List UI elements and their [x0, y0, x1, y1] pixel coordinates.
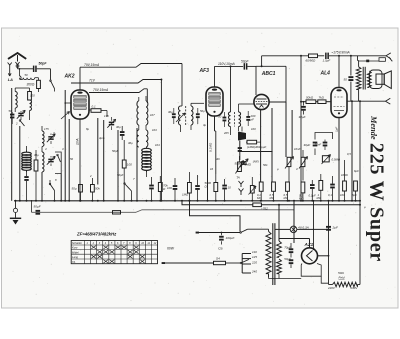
svg-text:Schalter: Schalter [72, 241, 82, 245]
second bus to transformer [261, 204, 360, 206]
wire ABC1 grid left [252, 103, 254, 105]
AVC drop x294 [293, 201, 295, 243]
wire tuner top left [11, 68, 13, 89]
switch S3 [49, 183, 51, 185]
ABC1 top wire [256, 65, 286, 67]
wire AZ1 top [278, 239, 280, 242]
screen dark trapezoid [238, 132, 246, 141]
capacitor 50pF series [33, 66, 35, 72]
resistor bottom row 3 [286, 182, 290, 191]
svg-text:1MΩ: 1MΩ [245, 162, 252, 166]
tube ABC1 [254, 94, 269, 109]
AL4 grid line [301, 101, 306, 103]
capacitor 2uF [326, 226, 331, 228]
svg-text:3µ: 3µ [203, 123, 207, 127]
resistor 300ohm [28, 92, 32, 101]
IFT1 right cap [196, 113, 200, 115]
svg-text:50: 50 [25, 73, 29, 77]
wire column x65 [64, 90, 66, 201]
svg-text:50pF: 50pF [241, 60, 250, 64]
capacitor 10n row [222, 185, 227, 187]
wire column x19.8 [19, 126, 21, 201]
svg-text:10: 10 [228, 186, 232, 190]
right cluster resistor 1 [343, 181, 347, 191]
wire AK2 anode to rail [79, 67, 81, 90]
svg-text:4000µµF: 4000µµF [255, 145, 266, 149]
svg-text:175: 175 [104, 114, 109, 118]
svg-text:60W: 60W [167, 247, 175, 251]
mains top wire [199, 232, 240, 234]
svg-text:2µF: 2µF [332, 226, 340, 230]
svg-text:125: 125 [252, 255, 257, 259]
svg-text:104: 104 [155, 143, 160, 147]
switch S1 [50, 80, 52, 82]
rail 79V 15mA stepped [80, 64, 182, 68]
IFT1 left cap [172, 113, 176, 115]
svg-text:50µF: 50µF [34, 205, 42, 209]
component column small resistor [34, 160, 38, 171]
capacitor 70uF [290, 243, 292, 248]
svg-text:50µ: 50µ [72, 187, 77, 191]
coil L3 [41, 126, 43, 131]
svg-text:220V: 220V [327, 286, 336, 290]
svg-text:30µF: 30µF [304, 143, 311, 147]
switch S2 [19, 120, 21, 122]
svg-text:100Ω: 100Ω [341, 173, 349, 177]
svg-text:Kurz: Kurz [72, 246, 78, 250]
rail 75V 15mA stepped [89, 89, 147, 93]
svg-text:(1MΩ): (1MΩ) [247, 145, 255, 149]
coil L4 [42, 152, 44, 172]
svg-text:225 W Super: 225 W Super [366, 143, 388, 262]
field coil bottom wire [329, 284, 333, 286]
wire column x118 [117, 130, 119, 201]
wire AL4 cathode down [338, 118, 340, 201]
svg-text:50: 50 [70, 157, 74, 161]
svg-text:50µ: 50µ [200, 109, 205, 113]
ground circle [13, 208, 17, 212]
svg-text:⌐762: ⌐762 [261, 206, 268, 210]
svg-text:0,1: 0,1 [92, 105, 97, 109]
wire transformer drop [357, 56, 359, 61]
coil L5 frame dense [22, 152, 32, 155]
feedback loop box [315, 133, 333, 140]
ground stem [15, 201, 17, 209]
svg-text:79V,15mA: 79V,15mA [84, 63, 100, 67]
wire grid to AL4 [326, 101, 331, 103]
svg-text:7kΩ: 7kΩ [319, 95, 325, 99]
svg-text:10nF: 10nF [315, 143, 322, 147]
wire column x352 down [351, 101, 353, 201]
AZ1 heater loop [301, 264, 321, 277]
capacitor C pad [10, 114, 14, 116]
connector fork right bottom [386, 98, 391, 101]
svg-text:30µ: 30µ [168, 110, 173, 114]
tube AZ1 rectifier [302, 248, 318, 264]
svg-text:110V,10mA: 110V,10mA [218, 62, 236, 66]
wire rail down to ABC1 box [261, 56, 263, 67]
pot 1M with arrow [238, 162, 242, 172]
wire ABC1 right down [285, 66, 287, 102]
capacitor 50uF AVC [36, 210, 41, 212]
svg-text:Mittel: Mittel [72, 250, 79, 254]
speaker plug box [359, 60, 379, 62]
main B+ vertical x301 [300, 56, 302, 201]
tap 220 [242, 263, 251, 265]
IFT2 left coil [228, 112, 230, 127]
svg-text:0,5: 0,5 [347, 152, 351, 156]
svg-text:AL4: AL4 [320, 71, 331, 77]
svg-text:70µF: 70µF [284, 246, 291, 250]
resistor row x252 with arrow [250, 186, 254, 194]
svg-text:50: 50 [9, 109, 13, 113]
volume pot 2 [301, 157, 305, 166]
antenna terminal Y2 [15, 62, 19, 65]
transformer secondary HT [277, 241, 282, 257]
osc transformer T1 right coil [146, 101, 148, 125]
svg-text:16: 16 [210, 167, 214, 171]
voltage taps bracket [241, 254, 243, 274]
resistor 0,3M screen [247, 140, 257, 144]
dial lamp wire [275, 228, 290, 230]
osc coil pair 2 right [146, 130, 148, 147]
fuse S4 [214, 261, 226, 264]
resistor bottom row 5 [319, 181, 323, 191]
svg-text:75V,15mA: 75V,15mA [93, 88, 109, 92]
capacitor Ca 100uF [221, 232, 223, 234]
svg-text:0,5MΩ: 0,5MΩ [332, 157, 341, 161]
wire AF3 bottom [214, 116, 216, 131]
wire column x103 [103, 120, 105, 201]
tube AK2 [71, 90, 89, 119]
coil L2 [30, 100, 32, 111]
capacitor 5000 row [195, 185, 200, 187]
IFT1 wiring [181, 105, 183, 107]
svg-text:6µF: 6µF [352, 193, 357, 197]
wave table [71, 241, 157, 264]
osc dense coil [142, 148, 152, 152]
svg-text:Ca: Ca [218, 246, 222, 250]
resistor bottom row 1 [259, 182, 263, 191]
svg-text:8µ: 8µ [86, 127, 90, 131]
main ground bus [14, 200, 361, 202]
capacitor 50 speaker [350, 56, 352, 76]
wire ABC1 left down [255, 66, 257, 95]
wire AK2 cathode down [79, 119, 81, 201]
capacitor 50 above bus [149, 185, 154, 187]
svg-text:LA: LA [8, 78, 13, 82]
ground symbol [10, 217, 21, 219]
antenna terminal Y1 [8, 63, 12, 66]
wire AF3 pin down to resistor column [215, 130, 216, 132]
heater line from bus [190, 201, 241, 232]
wire ABC1 down x272 [271, 108, 273, 182]
IFT2 core [234, 112, 236, 127]
svg-text:0,1MΩ: 0,1MΩ [208, 142, 212, 152]
resistor 7k grid [318, 100, 326, 104]
svg-text:S4: S4 [216, 257, 220, 261]
svg-text:0,1: 0,1 [328, 193, 332, 197]
svg-text:100: 100 [340, 193, 345, 197]
resistor 0.1M at AK2 [89, 109, 91, 111]
svg-text:(NF): (NF) [253, 159, 259, 163]
output transformer secondary [367, 71, 371, 87]
wire AZ1 right [318, 255, 329, 257]
svg-text:1MΩ: 1MΩ [182, 193, 189, 197]
tube AF3 [206, 87, 223, 116]
table X marks [91, 246, 96, 249]
transformer core [272, 223, 274, 285]
svg-text:240: 240 [251, 269, 257, 273]
trimmer 50pF det [241, 161, 246, 163]
capacitor 1,5uF series [325, 53, 327, 59]
tube AL4 [331, 88, 347, 118]
svg-text:4µm: 4µm [99, 136, 105, 140]
resistor 50k above bus [91, 185, 95, 193]
coil LW horizontal [19, 69, 21, 76]
svg-text:1,5µF: 1,5µF [323, 58, 331, 62]
svg-text:100: 100 [127, 163, 132, 167]
svg-text:175: 175 [44, 127, 49, 131]
output transformer core [362, 67, 364, 90]
svg-text:Lang: Lang [72, 255, 78, 259]
svg-text:100: 100 [251, 127, 256, 131]
loop to bottom [321, 276, 328, 283]
wire between grid resistors [316, 101, 318, 103]
resistor bottom row 2 [272, 182, 276, 191]
wire L1 top [15, 87, 29, 89]
resistor 1762 [253, 203, 262, 207]
IFT2 left cap 50 [223, 117, 227, 119]
selector arm [240, 262, 242, 264]
capacitor 10nF feedback [323, 142, 328, 144]
resistor 60-90 ohm [309, 54, 318, 58]
wire detector line [240, 151, 273, 153]
svg-text:1µF: 1µF [335, 127, 339, 132]
IFT2 right coil [239, 112, 241, 127]
svg-text:50pF: 50pF [117, 173, 124, 177]
trimmer C3 [48, 159, 53, 161]
earth arrow [9, 68, 11, 76]
svg-text:107: 107 [150, 113, 155, 117]
output transformer primary [356, 67, 361, 90]
trimmer AK2 cathode [61, 112, 70, 120]
svg-text:71V: 71V [89, 79, 96, 83]
second bus line [182, 201, 253, 205]
wire AF3 anode up [214, 66, 216, 87]
svg-text:1mA: 1mA [76, 138, 80, 145]
dial lamp [290, 226, 297, 233]
wire feedback down [324, 162, 326, 174]
mains switch [240, 232, 242, 234]
svg-text:100: 100 [30, 94, 35, 98]
field coil [333, 282, 358, 287]
svg-text:220: 220 [251, 260, 257, 264]
resistor 300 antenna [35, 77, 39, 79]
svg-text:300Ω: 300Ω [27, 83, 35, 87]
capacitor 10u det [238, 147, 242, 149]
wire AL4 anode up [338, 56, 340, 88]
wire to ABC1 box [247, 65, 256, 67]
rail 110V 10mA [215, 65, 244, 67]
dial lamp wire right [297, 228, 329, 230]
mains bottom wire [165, 262, 214, 264]
wire column x137 [136, 128, 138, 201]
resistor 1k AVC [113, 211, 121, 214]
IFT2 wiring top [230, 66, 232, 112]
resistor 70k above bus [158, 183, 162, 192]
svg-text:Mende: Mende [369, 115, 378, 140]
svg-text:≈175V,90mA: ≈175V,90mA [332, 51, 350, 55]
wire bus to AZ1 cathode [313, 201, 315, 249]
svg-text:AF3: AF3 [199, 68, 210, 74]
wire antenna to capacitor [18, 68, 34, 70]
resistor 100 osc [122, 160, 126, 168]
svg-text:100µF: 100µF [226, 236, 236, 240]
speaker cone [384, 71, 391, 89]
coil L1 antenna [14, 88, 16, 92]
wire capacitor to switch [37, 68, 51, 70]
capacitor 30uF loop [313, 142, 318, 144]
svg-text:50k: 50k [263, 163, 268, 167]
tap 240 [242, 272, 251, 274]
trimmer IFT1 [176, 113, 185, 122]
wire column x286 down [285, 102, 287, 157]
pot 0,5M feedback [322, 156, 329, 162]
TA terminal Y3 [239, 181, 244, 184]
svg-text:TA: TA [236, 176, 240, 180]
svg-text:50: 50 [218, 115, 222, 119]
svg-text:100: 100 [167, 186, 172, 190]
svg-text:205: 205 [223, 131, 229, 135]
svg-text:60/90Ω: 60/90Ω [306, 58, 317, 62]
right cluster resistor 2 [354, 181, 358, 191]
transformer primary winding [266, 231, 271, 273]
mains terminal bottom [162, 262, 165, 264]
wire column x69 [68, 119, 70, 201]
resistor 1M row [188, 183, 192, 194]
capacitor row 100 [173, 185, 178, 187]
trimmer osc pad [109, 122, 114, 124]
svg-text:10nF: 10nF [294, 147, 301, 151]
IFT1 left coil [179, 106, 181, 125]
svg-text:30µ: 30µ [116, 125, 121, 129]
wire rail to transformer [329, 55, 358, 57]
capacitor dark osc [120, 131, 125, 133]
antenna LA [8, 53, 26, 59]
svg-text:50: 50 [344, 77, 348, 81]
svg-text:50k: 50k [95, 187, 100, 191]
svg-text:50pF: 50pF [112, 149, 119, 153]
osc coil pair 2 left [137, 130, 139, 147]
svg-text:AK2: AK2 [64, 74, 75, 80]
svg-text:ZF=468/473/482kHz: ZF=468/473/482kHz [76, 231, 117, 236]
svg-text:30µF: 30µF [299, 115, 306, 119]
IFT1 right coil [191, 106, 193, 125]
wire rail3 down x147 [146, 89, 148, 103]
svg-text:110: 110 [252, 250, 257, 254]
osc transformer T1 left coil [137, 101, 139, 125]
svg-text:6µF: 6µF [354, 169, 359, 173]
wire AK2 grid left [65, 102, 71, 104]
svg-text:2: 2 [15, 122, 18, 126]
resistor 0,3M above bus [79, 185, 83, 193]
capacitor 50uF psu [289, 259, 294, 261]
resistor row 5000 [214, 183, 218, 192]
wire rail1 down x182 [181, 64, 183, 107]
IFT2 right cap 200pF [246, 116, 250, 118]
wire column x97 [97, 118, 99, 185]
svg-text:30µ: 30µ [34, 153, 39, 157]
svg-text:Feld: Feld [339, 275, 345, 279]
svg-text:103: 103 [152, 128, 157, 132]
resistor 50k grid [306, 100, 316, 104]
wire column x292 down [291, 110, 293, 157]
wire ABC1 plate [269, 101, 286, 103]
right cluster cap [330, 184, 335, 186]
transformer secondary LT [277, 259, 282, 274]
volume pot 1 [287, 157, 291, 166]
wire rail2 down x161 [160, 80, 162, 201]
svg-text:0,1µF: 0,1µF [309, 193, 316, 197]
vertical x328 with 2uF [328, 201, 330, 285]
svg-text:50kΩ: 50kΩ [306, 95, 314, 99]
rail 71V stepped [71, 80, 161, 84]
wire AF3 cathode down [207, 113, 209, 201]
mains terminal top [196, 232, 199, 234]
capacitor 0,1uF bottom row [310, 184, 315, 186]
IFT2 bottoms [230, 127, 232, 136]
connector fork right top [358, 55, 387, 57]
wire column x61 [60, 173, 62, 200]
wire ABC1 down x260 [260, 110, 262, 182]
trimmer C1 [18, 113, 23, 115]
svg-text:pF: pF [250, 117, 255, 121]
speaker bottom line [347, 100, 386, 102]
svg-text:230V: 230V [350, 286, 359, 290]
tap 125 [242, 258, 251, 260]
switch S5 [124, 183, 126, 185]
field coil vertical [359, 101, 361, 284]
svg-text:TA: TA [72, 260, 75, 264]
svg-text:50µF: 50µF [284, 257, 291, 261]
AVC line [32, 211, 137, 213]
svg-text:ABC1: ABC1 [261, 71, 276, 77]
capacitor 50pF coupling [244, 63, 246, 69]
resistor bottom row 4 [301, 182, 305, 193]
trimmer C2 [48, 136, 53, 138]
svg-text:50pF: 50pF [39, 62, 48, 66]
speaker enclosure [370, 70, 383, 89]
IFT1 core [185, 106, 187, 125]
TA terminal Y4 [239, 189, 244, 192]
svg-text:36µ: 36µ [128, 141, 133, 145]
capacitor C4 [24, 176, 28, 178]
svg-text:AZ1: AZ1 [304, 242, 314, 247]
svg-text:2: 2 [89, 174, 92, 178]
switch loop box [55, 152, 61, 173]
tap 110 [242, 253, 251, 255]
speaker driver [376, 74, 384, 84]
top rail 175V [262, 55, 309, 57]
capacitor 30uF [303, 102, 305, 106]
